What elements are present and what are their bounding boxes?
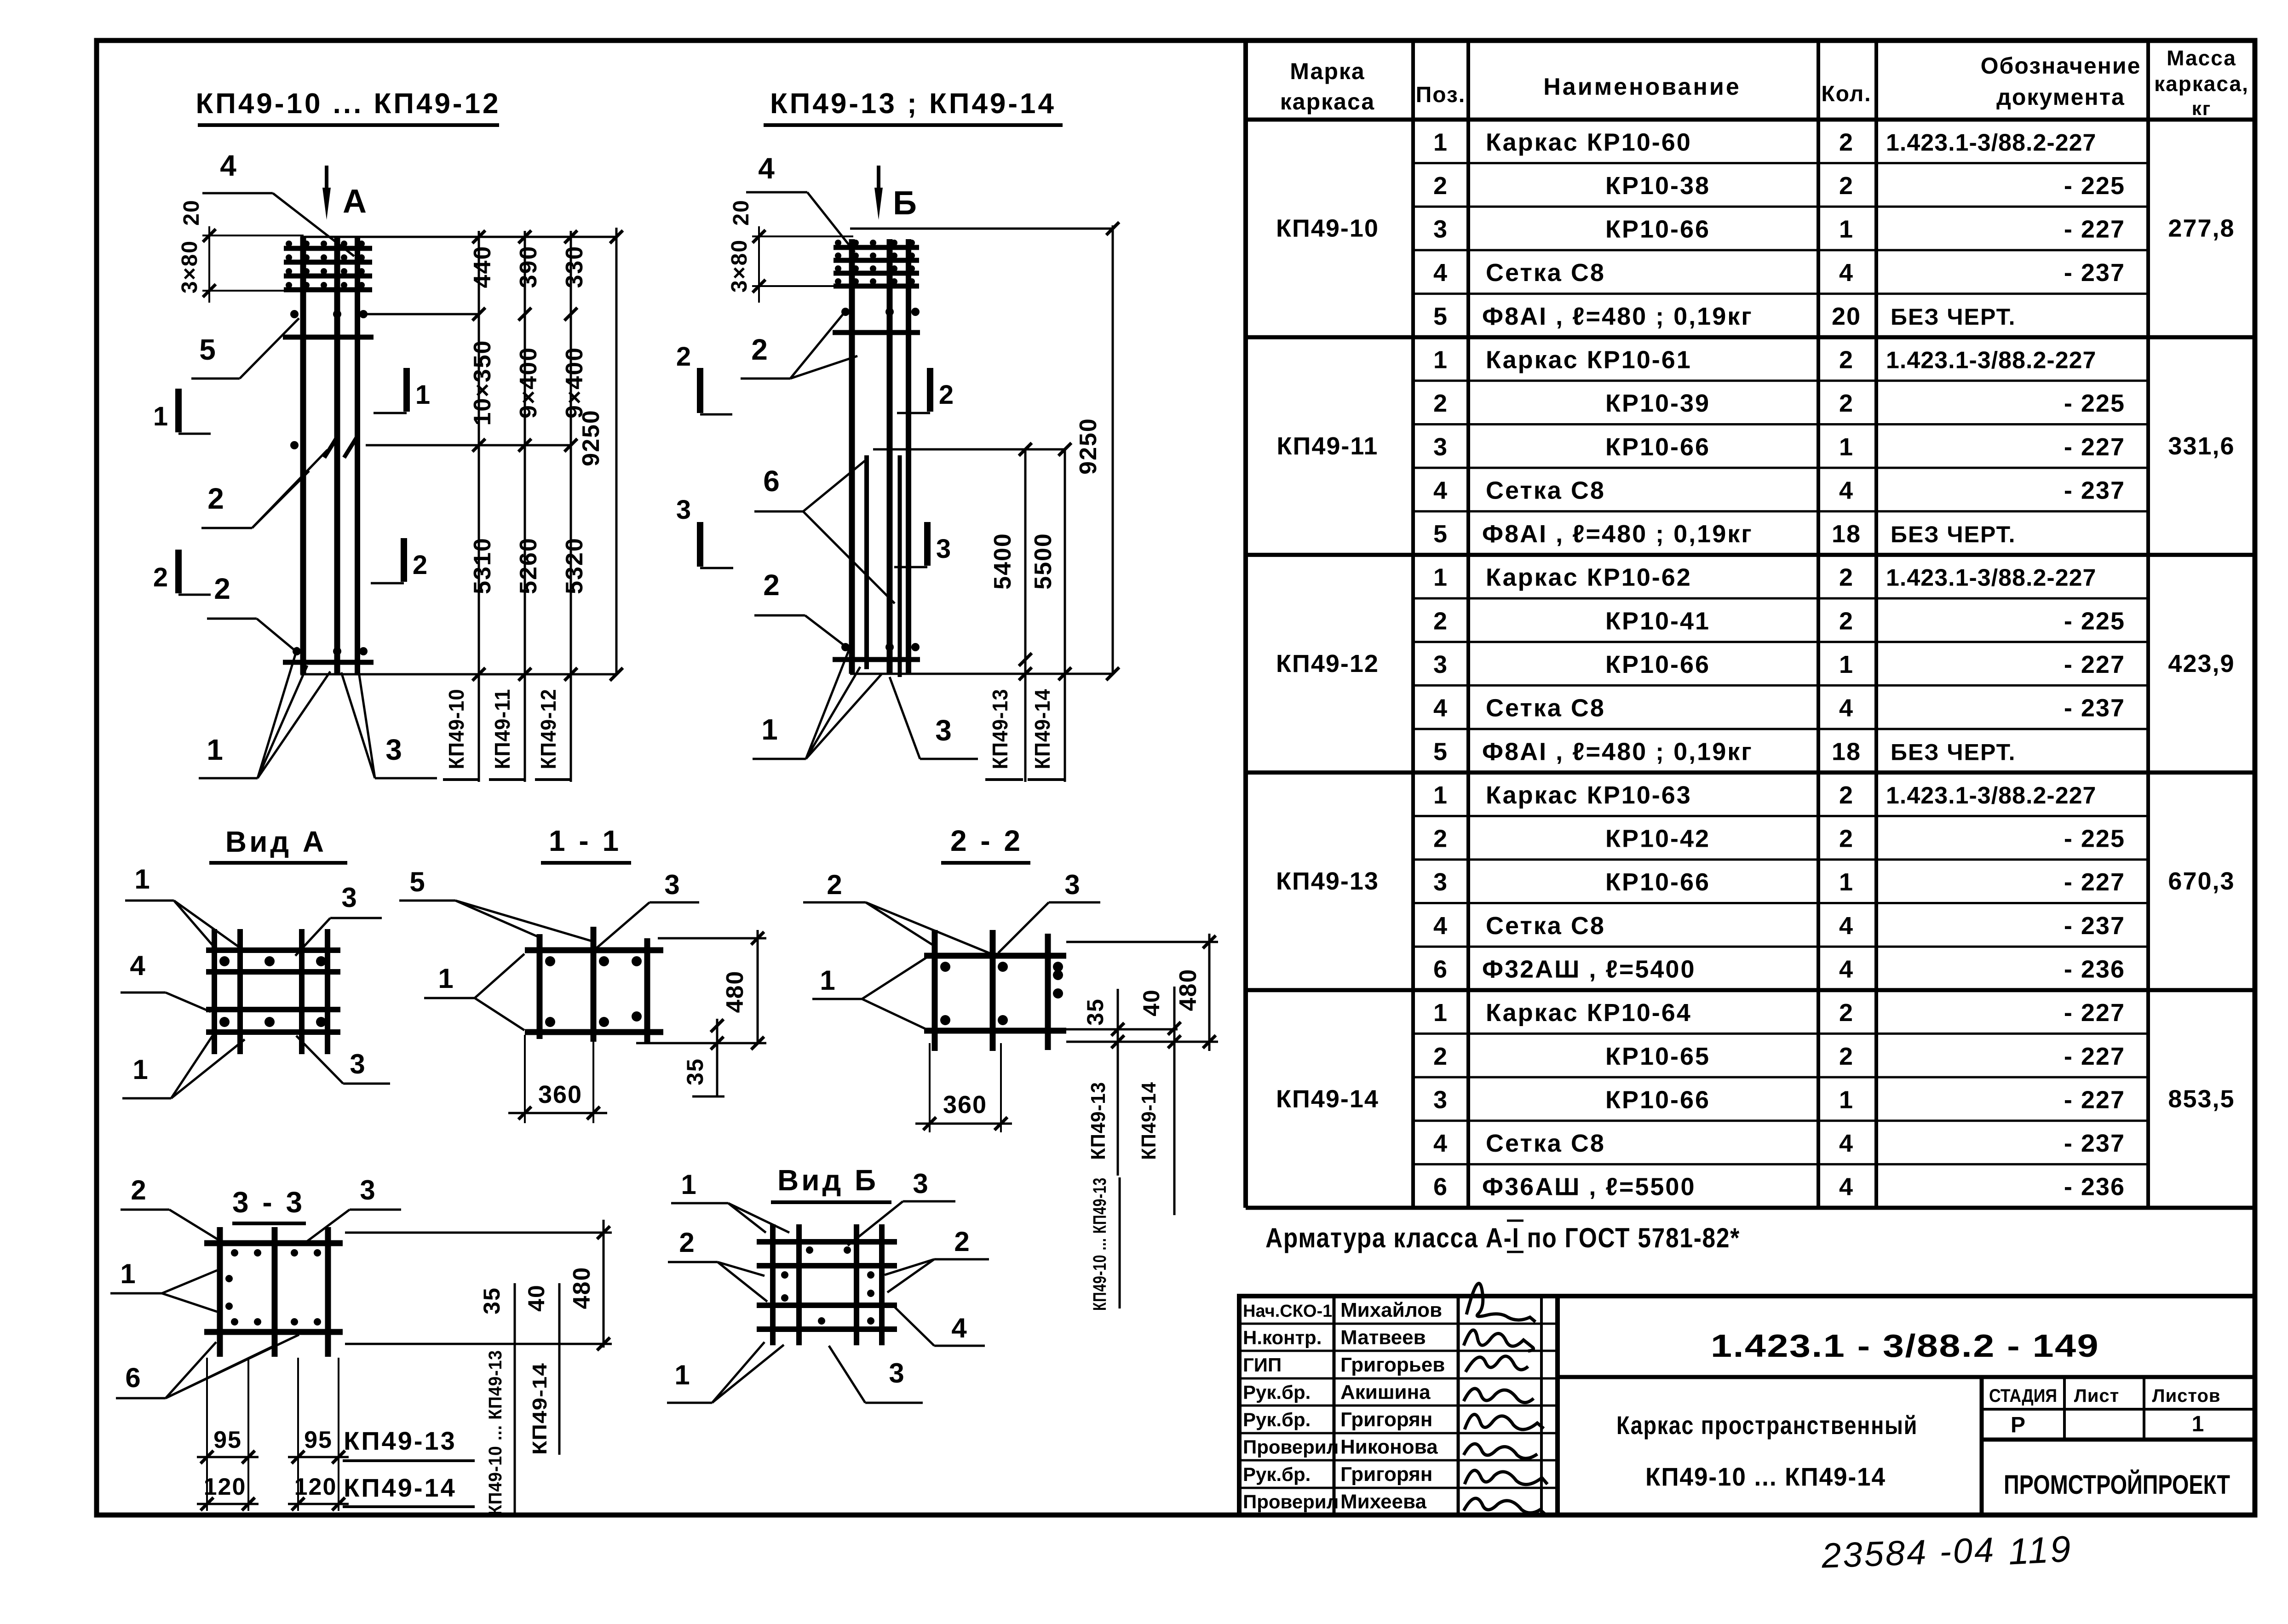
svg-text:2: 2 [207, 482, 225, 515]
svg-text:Листов: Листов [2152, 1386, 2221, 1406]
3-3 bars [204, 1227, 343, 1357]
svg-text:Арматура класса А-I по ГОС: Арматура класса А-I по ГОСТ 5781-82* [1265, 1222, 1740, 1253]
svg-text:2: 2 [1839, 999, 1854, 1027]
svg-text:1: 1 [1839, 868, 1854, 896]
svg-text:- 225: - 225 [2064, 825, 2125, 853]
svg-text:- 237: - 237 [2064, 476, 2125, 504]
svg-text:2: 2 [214, 572, 231, 605]
svg-text:1: 1 [438, 963, 454, 994]
svg-text:1: 1 [153, 402, 169, 431]
svg-text:КП49-13 ; КП49-14: КП49-13 ; КП49-14 [770, 88, 1056, 120]
svg-text:5: 5 [199, 333, 217, 366]
svg-text:1.423.1-3/88.2-227: 1.423.1-3/88.2-227 [1886, 565, 2096, 591]
D2 dim labels [989, 418, 1102, 590]
3-3 dim 480 [345, 1220, 612, 1350]
D2 section marks 3 [676, 495, 952, 568]
svg-text:КР10-66: КР10-66 [1605, 216, 1710, 243]
svg-text:БЕЗ ЧЕРТ.: БЕЗ ЧЕРТ. [1891, 522, 2016, 547]
svg-text:1: 1 [1433, 564, 1448, 591]
svg-text:КР10-65: КР10-65 [1605, 1043, 1710, 1070]
D2 ties [833, 247, 920, 660]
D2 left small dim 20 / 3x80 [727, 199, 853, 303]
svg-text:95: 95 [304, 1427, 333, 1453]
view A callout 3 bottom [296, 1036, 390, 1084]
svg-text:каркаса,: каркаса, [2154, 72, 2249, 96]
svg-text:КР10-41: КР10-41 [1605, 607, 1710, 635]
svg-text:КП49-13: КП49-13 [1087, 1082, 1110, 1160]
svg-text:5320: 5320 [561, 537, 588, 594]
svg-text:БЕЗ ЧЕРТ.: БЕЗ ЧЕРТ. [1891, 739, 2016, 765]
D2 dimension lines [1019, 222, 1119, 782]
svg-text:КР10-42: КР10-42 [1605, 825, 1710, 853]
svg-text:- 227: - 227 [2064, 216, 2125, 243]
svg-text:4: 4 [1433, 1130, 1448, 1157]
svg-text:Ф8АI , ℓ=480 ; 0,19кг: Ф8АI , ℓ=480 ; 0,19кг [1482, 738, 1753, 765]
3-3 callout 6 [116, 1335, 299, 1398]
D1 section marks 1-1 [153, 368, 431, 434]
svg-text:2: 2 [131, 1175, 147, 1205]
svg-text:КП49-10 ... КП49-13: КП49-10 ... КП49-13 [485, 1350, 506, 1515]
svg-text:3: 3 [1433, 433, 1448, 461]
svg-text:ГИП: ГИП [1243, 1354, 1282, 1376]
svg-text:3: 3 [664, 869, 680, 900]
svg-text:- 236: - 236 [2064, 956, 2125, 983]
svg-text:2: 2 [676, 342, 692, 372]
svg-text:Проверил: Проверил [1243, 1491, 1339, 1513]
svg-text:5500: 5500 [1030, 533, 1057, 590]
svg-text:1: 1 [132, 1054, 149, 1085]
svg-text:Михайлов: Михайлов [1340, 1299, 1442, 1321]
table rows text [1276, 128, 2235, 1200]
D1 dim labels [469, 246, 604, 594]
view B callout 3 bottom [829, 1346, 923, 1403]
svg-text:2: 2 [1433, 390, 1448, 417]
svg-text:Кол.: Кол. [1821, 82, 1871, 106]
svg-text:КП49-10 ... КП49-14: КП49-10 ... КП49-14 [1645, 1462, 1886, 1491]
svg-text:3: 3 [1433, 868, 1448, 896]
svg-text:Михеева: Михеева [1340, 1491, 1426, 1513]
svg-text:2: 2 [751, 333, 769, 366]
svg-text:9×400: 9×400 [561, 347, 588, 419]
1-1 callout 5 [399, 867, 592, 941]
doc number cell [1558, 1375, 2255, 1379]
svg-text:5260: 5260 [515, 537, 542, 594]
view A callout 4 [121, 950, 211, 1012]
svg-text:4: 4 [130, 950, 146, 981]
svg-text:2: 2 [827, 869, 843, 900]
svg-text:2: 2 [153, 562, 169, 592]
view B dots [781, 1246, 874, 1325]
svg-text:КП49-10 ... КП49-13: КП49-10 ... КП49-13 [1090, 1177, 1110, 1311]
svg-text:2: 2 [939, 380, 954, 410]
D1 callout 1 [199, 647, 330, 778]
svg-text:КР10-66: КР10-66 [1605, 651, 1710, 678]
view B callout 3 top [848, 1168, 955, 1245]
specification table grid [1246, 40, 2255, 1208]
2-2 column labels [1087, 1082, 1160, 1160]
svg-text:4: 4 [1433, 259, 1448, 287]
svg-text:2: 2 [1433, 1043, 1448, 1070]
view B callout 2 right [885, 1226, 989, 1292]
svg-text:3: 3 [1433, 651, 1448, 678]
svg-text:331,6: 331,6 [2168, 432, 2235, 460]
D1 section arrow A [322, 166, 368, 220]
D1 callout 4 [202, 149, 354, 256]
svg-text:1: 1 [1433, 999, 1448, 1027]
view A callout 1 bottom [122, 1036, 245, 1098]
svg-text:КП49-13: КП49-13 [988, 689, 1012, 769]
svg-text:423,9: 423,9 [2168, 650, 2235, 677]
stadia list cells [1982, 1377, 2255, 1515]
D1 callout 2 low [207, 572, 298, 653]
svg-text:4: 4 [1839, 259, 1854, 287]
view A callout 1 top [125, 864, 245, 951]
svg-text:Сетка С8: Сетка С8 [1486, 912, 1605, 940]
svg-text:2 - 2: 2 - 2 [950, 824, 1023, 857]
svg-text:480: 480 [722, 970, 748, 1013]
svg-text:кг: кг [2192, 98, 2212, 119]
1-1 dim 360 [508, 1035, 607, 1123]
svg-text:3: 3 [350, 1049, 366, 1079]
svg-text:Сетка С8: Сетка С8 [1486, 694, 1605, 722]
svg-text:3: 3 [341, 882, 357, 913]
signature table labels [1243, 1299, 1445, 1513]
svg-text:- 227: - 227 [2064, 1043, 2125, 1070]
3-3 callout 3 top [303, 1175, 401, 1245]
svg-text:КП49-11: КП49-11 [1277, 432, 1379, 460]
svg-text:Н.контр.: Н.контр. [1243, 1327, 1322, 1349]
svg-text:КП49-14: КП49-14 [529, 1363, 551, 1455]
svg-text:853,5: 853,5 [2168, 1085, 2235, 1113]
D2 position 6 bars [867, 455, 900, 677]
svg-text:1: 1 [1839, 1086, 1854, 1113]
svg-text:390: 390 [515, 246, 542, 288]
svg-text:- 227: - 227 [2064, 868, 2125, 896]
svg-text:Б: Б [893, 185, 918, 222]
view B callout 4 [894, 1306, 985, 1346]
svg-text:4: 4 [951, 1313, 967, 1343]
svg-text:2: 2 [954, 1226, 970, 1257]
svg-text:Каркас КР10-61: Каркас КР10-61 [1486, 346, 1692, 374]
svg-text:КП49-12: КП49-12 [1276, 650, 1379, 677]
svg-text:- 225: - 225 [2064, 390, 2125, 417]
svg-text:480: 480 [1175, 969, 1201, 1011]
svg-text:КП49-10: КП49-10 [1276, 215, 1379, 242]
svg-text:6: 6 [1433, 1173, 1448, 1201]
svg-text:6: 6 [1433, 956, 1448, 983]
D2 cage vertical bars [852, 239, 908, 674]
svg-text:4: 4 [1433, 476, 1448, 504]
svg-text:4: 4 [1839, 1130, 1854, 1157]
svg-text:5: 5 [1433, 738, 1448, 765]
svg-text:119: 119 [2007, 1528, 2074, 1572]
svg-text:35: 35 [1082, 998, 1108, 1026]
svg-text:20: 20 [1832, 303, 1861, 330]
3-3 callout 2 [121, 1175, 222, 1242]
svg-text:277,8: 277,8 [2168, 215, 2235, 242]
svg-text:330: 330 [561, 246, 588, 288]
view B callout 1 top [671, 1169, 789, 1233]
svg-text:Р: Р [2011, 1413, 2026, 1437]
svg-text:40: 40 [1138, 989, 1164, 1016]
svg-text:3: 3 [676, 495, 692, 525]
D1 cage vertical bars [303, 237, 357, 674]
svg-text:1: 1 [120, 1258, 136, 1289]
svg-text:документа: документа [1996, 84, 2125, 110]
3-3 callout 1 [110, 1258, 217, 1312]
D2 section arrow B [874, 166, 918, 222]
svg-text:3×80: 3×80 [727, 239, 752, 293]
svg-text:КП49-14: КП49-14 [1030, 689, 1054, 769]
1-1 callout 1 [424, 954, 524, 1030]
svg-text:ПРОМСТРОЙПРОЕКТ: ПРОМСТРОЙПРОЕКТ [2004, 1470, 2230, 1500]
view A callout 3 top [295, 882, 382, 956]
D2 callout 2 upper [741, 315, 857, 379]
svg-text:1: 1 [207, 733, 224, 766]
svg-text:1: 1 [1839, 216, 1854, 243]
svg-text:4: 4 [1433, 694, 1448, 722]
svg-text:3: 3 [889, 1358, 905, 1389]
svg-text:120: 120 [294, 1474, 337, 1500]
svg-text:2: 2 [1839, 172, 1854, 200]
svg-text:2: 2 [1839, 564, 1854, 591]
svg-text:360: 360 [943, 1091, 987, 1119]
svg-text:КП49-10: КП49-10 [444, 689, 468, 769]
svg-text:3×80: 3×80 [178, 240, 202, 293]
svg-text:КП49-11: КП49-11 [490, 689, 514, 769]
1-1 dim 480 [636, 930, 766, 1050]
svg-text:4: 4 [220, 149, 237, 182]
svg-text:- 237: - 237 [2064, 259, 2125, 287]
svg-text:Матвеев: Матвеев [1340, 1326, 1426, 1349]
svg-text:3: 3 [935, 714, 953, 747]
svg-text:5: 5 [409, 867, 425, 897]
svg-text:18: 18 [1832, 520, 1861, 548]
svg-text:КП49-10 ... КП49-12: КП49-10 ... КП49-12 [195, 88, 500, 120]
svg-text:4: 4 [1839, 912, 1854, 940]
2-2 bars [924, 930, 1066, 1051]
svg-text:1 - 1: 1 - 1 [549, 824, 621, 857]
svg-text:20: 20 [729, 199, 753, 225]
svg-text:18: 18 [1832, 738, 1861, 765]
svg-text:Каркас КР10-63: Каркас КР10-63 [1486, 781, 1692, 809]
svg-text:9250: 9250 [578, 409, 604, 466]
svg-text:КП49-14: КП49-14 [344, 1473, 457, 1502]
svg-text:20: 20 [179, 199, 204, 225]
svg-text:- 236: - 236 [2064, 1173, 2125, 1201]
D1 section marks 2-2 [153, 538, 428, 595]
svg-text:2: 2 [1839, 607, 1854, 635]
svg-text:КР10-66: КР10-66 [1605, 868, 1710, 896]
svg-text:Рук.бр.: Рук.бр. [1243, 1463, 1311, 1485]
2-2 dots [940, 962, 1063, 1025]
svg-text:БЕЗ ЧЕРТ.: БЕЗ ЧЕРТ. [1891, 304, 2016, 330]
view B column label [1090, 1177, 1120, 1311]
svg-text:КП49-12: КП49-12 [536, 689, 560, 769]
svg-text:- 225: - 225 [2064, 172, 2125, 200]
svg-text:5: 5 [1433, 520, 1448, 548]
svg-text:Каркас пространственный: Каркас пространственный [1616, 1411, 1918, 1440]
svg-text:1: 1 [415, 380, 431, 410]
3-3 lower ext lines [207, 1358, 339, 1511]
view A bars [206, 929, 340, 1054]
svg-text:1: 1 [1839, 433, 1854, 461]
D1 callout 2 mid [201, 450, 328, 528]
svg-text:35: 35 [479, 1287, 505, 1314]
3-3 dim 35/40 columns [479, 1283, 559, 1515]
svg-text:440: 440 [469, 246, 496, 288]
3-3 row labels [343, 1426, 475, 1507]
svg-text:Ф8АI , ℓ=480 ; 0,19кг: Ф8АI , ℓ=480 ; 0,19кг [1482, 303, 1753, 330]
svg-text:- 237: - 237 [2064, 694, 2125, 722]
1-1 dim 35 [682, 1019, 724, 1096]
svg-text:4: 4 [1839, 476, 1854, 504]
svg-text:Каркас КР10-62: Каркас КР10-62 [1486, 564, 1692, 591]
svg-text:1: 1 [1433, 346, 1448, 374]
svg-text:1.423.1-3/88.2-227: 1.423.1-3/88.2-227 [1886, 347, 2096, 374]
svg-text:Каркас КР10-64: Каркас КР10-64 [1486, 999, 1692, 1027]
D2 bottom column labels [985, 689, 1064, 780]
svg-text:Наименование: Наименование [1543, 74, 1741, 100]
svg-text:5310: 5310 [469, 537, 496, 594]
svg-text:Масса: Масса [2167, 46, 2236, 70]
table header text [1280, 46, 2249, 119]
D1 callout 3 [341, 654, 437, 778]
svg-text:1: 1 [681, 1169, 697, 1200]
svg-text:3 - 3: 3 - 3 [232, 1186, 305, 1219]
view B bars [757, 1224, 897, 1345]
svg-text:Каркас КР10-60: Каркас КР10-60 [1486, 128, 1692, 156]
svg-text:4: 4 [1839, 694, 1854, 722]
svg-text:- 237: - 237 [2064, 912, 2125, 940]
svg-text:КР10-66: КР10-66 [1605, 1086, 1710, 1113]
svg-text:- 227: - 227 [2064, 433, 2125, 461]
2-2 callout 2 [803, 869, 994, 955]
2-2 dims right [1066, 934, 1218, 1215]
svg-text:40: 40 [523, 1284, 549, 1312]
svg-text:3: 3 [1433, 1086, 1448, 1113]
svg-text:6: 6 [125, 1362, 141, 1393]
D2 extension lines [850, 229, 1113, 674]
svg-text:2: 2 [413, 550, 428, 580]
svg-text:Поз.: Поз. [1416, 83, 1466, 107]
3-3 dots [225, 1249, 321, 1326]
D1 callout 5 [191, 318, 299, 379]
D2 callout 4 [746, 152, 855, 252]
svg-text:Вид Б: Вид Б [777, 1164, 879, 1197]
D2 hook dots [835, 240, 920, 651]
1-1 dots [545, 956, 642, 1027]
svg-text:СТАДИЯ: СТАДИЯ [1989, 1386, 2057, 1406]
view B callout 2 left [668, 1227, 767, 1302]
svg-text:9250: 9250 [1075, 418, 1102, 475]
D2 section marks 2 [676, 342, 954, 414]
svg-text:6: 6 [763, 465, 781, 498]
svg-text:3: 3 [936, 534, 952, 564]
svg-text:Акишина: Акишина [1340, 1381, 1431, 1404]
title block outer [1239, 1296, 2255, 1515]
svg-text:Григорян: Григорян [1340, 1463, 1432, 1486]
svg-text:КП49-14: КП49-14 [1276, 1085, 1379, 1113]
svg-text:2: 2 [1433, 825, 1448, 853]
D2 callout 3 [890, 677, 978, 759]
svg-text:1.423.1-3/88.2-227: 1.423.1-3/88.2-227 [1886, 782, 2096, 809]
svg-text:3: 3 [1433, 216, 1448, 243]
svg-text:Григорян: Григорян [1340, 1408, 1432, 1431]
svg-text:1: 1 [1433, 128, 1448, 156]
signatures (cursive) [1464, 1283, 1547, 1516]
svg-text:1: 1 [134, 864, 150, 895]
svg-text:2: 2 [1839, 346, 1854, 374]
svg-text:1.423.1 - 3/88.2 - 149: 1.423.1 - 3/88.2 - 149 [1711, 1328, 2099, 1364]
svg-text:1: 1 [674, 1360, 690, 1390]
svg-text:10×350: 10×350 [469, 340, 496, 426]
svg-text:Рук.бр.: Рук.бр. [1243, 1409, 1311, 1430]
svg-text:5400: 5400 [989, 533, 1016, 590]
view B callout 1 bottom [667, 1342, 784, 1403]
svg-text:Никонова: Никонова [1340, 1436, 1438, 1458]
svg-text:КР10-39: КР10-39 [1605, 390, 1710, 417]
svg-text:4: 4 [758, 152, 776, 185]
svg-text:Проверил: Проверил [1243, 1436, 1339, 1458]
svg-text:КП49-14: КП49-14 [1138, 1082, 1160, 1160]
svg-text:23584 -04: 23584 -04 [1821, 1530, 1996, 1575]
svg-text:9×400: 9×400 [515, 347, 542, 419]
D2 callout 6 [754, 461, 895, 603]
svg-text:4: 4 [1839, 1173, 1854, 1201]
svg-text:Рук.бр.: Рук.бр. [1243, 1382, 1311, 1403]
svg-text:1: 1 [1433, 781, 1448, 809]
D2 callout 1 [753, 649, 882, 759]
svg-text:Ф32АШ , ℓ=5400: Ф32АШ , ℓ=5400 [1482, 956, 1696, 983]
svg-text:360: 360 [538, 1081, 582, 1108]
svg-text:КР10-66: КР10-66 [1605, 433, 1710, 461]
svg-text:2: 2 [679, 1227, 695, 1258]
svg-text:120: 120 [204, 1474, 247, 1500]
svg-text:3: 3 [385, 733, 403, 766]
svg-text:КП49-13: КП49-13 [344, 1426, 457, 1455]
D1 hook dots [286, 241, 368, 655]
svg-text:Обозначение: Обозначение [1981, 53, 2141, 79]
1-1 bars [525, 927, 663, 1043]
svg-text:2: 2 [1839, 390, 1854, 417]
svg-text:2: 2 [1839, 781, 1854, 809]
svg-text:Марка: Марка [1290, 58, 1365, 84]
svg-text:Вид А: Вид А [225, 825, 327, 858]
svg-text:Григорьев: Григорьев [1340, 1354, 1445, 1376]
svg-text:1.423.1-3/88.2-227: 1.423.1-3/88.2-227 [1886, 129, 2096, 156]
svg-text:- 237: - 237 [2064, 1130, 2125, 1157]
svg-text:1: 1 [820, 965, 836, 996]
svg-text:3: 3 [360, 1175, 376, 1205]
2-2 callout 1 [812, 958, 926, 1029]
svg-text:2: 2 [763, 568, 781, 602]
svg-text:Сетка С8: Сетка С8 [1486, 476, 1605, 504]
2-2 callout 3 [998, 869, 1100, 953]
svg-text:Ф36АШ , ℓ=5500: Ф36АШ , ℓ=5500 [1482, 1173, 1696, 1201]
signature table [1239, 1296, 1558, 1515]
D1 bottom column labels [443, 689, 572, 780]
svg-text:- 227: - 227 [2064, 999, 2125, 1027]
view A dots [219, 956, 326, 1027]
svg-text:2: 2 [1839, 1043, 1854, 1070]
D1 ties [283, 248, 374, 662]
svg-text:Сетка С8: Сетка С8 [1486, 1130, 1605, 1157]
1-1 callout 3 [596, 869, 699, 948]
svg-text:95: 95 [213, 1427, 242, 1453]
svg-text:3: 3 [1064, 869, 1081, 900]
svg-text:Ф8АI , ℓ=480 ; 0,19кг: Ф8АI , ℓ=480 ; 0,19кг [1482, 520, 1753, 548]
